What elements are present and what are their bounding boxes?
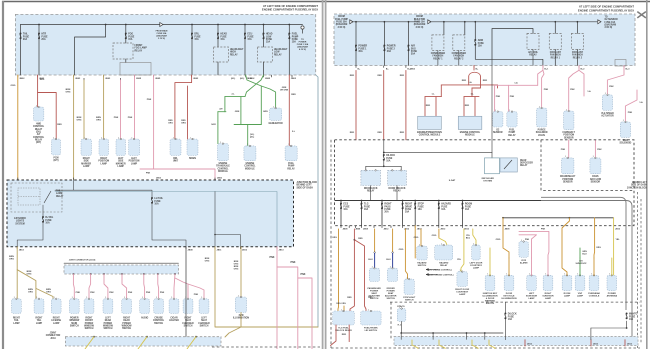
svg-text:JB13: JB13 <box>19 250 25 252</box>
connector tick right jb x=415.2 <box>414 226 416 228</box>
svg-text:JB05: JB05 <box>155 78 161 80</box>
wire fuse drop ECS <box>340 201 342 226</box>
label CRANKSHAFT POSITION SENSOR <box>560 175 576 183</box>
wire color label RED t1 <box>462 80 467 82</box>
wire notch drop yellow <box>613 218 615 275</box>
wire YEL bottom hook 3 <box>472 340 478 349</box>
wire POWER FUSE 2 drop <box>383 22 385 66</box>
wire RED tree right <box>480 76 482 85</box>
label RIGHT TAIL LAMP <box>36 318 44 325</box>
right jb connector label JB08 503 <box>505 229 511 231</box>
wire RED pair 2 <box>354 240 366 311</box>
wire PNK sunvisor h1 <box>519 231 549 258</box>
svg-text:PNK: PNK <box>609 86 614 88</box>
jc03 junction dot 4 <box>121 273 123 275</box>
wire color label RED 2 <box>57 124 62 126</box>
svg-text:(4WD CRUISE CONTROL): (4WD CRUISE CONTROL) <box>429 273 454 276</box>
label RIGHT FRONT POWER WINDOW SWITCH <box>84 318 95 331</box>
wire color label BLU s1 <box>368 259 373 261</box>
svg-text:1-A: 1-A <box>468 81 472 84</box>
page divider right line <box>325 0 327 349</box>
frame left border <box>2 1 4 349</box>
bottom strip dot 2 <box>466 332 468 334</box>
wire PNK right drop 1 <box>276 247 278 349</box>
component VOR ALARM <box>519 240 529 257</box>
wire color label PNK r2 <box>290 261 295 264</box>
component LEFT DOOR COURTESY LAMP <box>472 243 481 260</box>
label CRUISE CONTROL SWITCH <box>153 318 165 325</box>
connector tick right jb x=402.6 <box>402 226 404 228</box>
svg-text:1-A: 1-A <box>514 81 518 84</box>
connector tick left box1 x=37.6 <box>37 75 39 77</box>
connector label JB03 at x=103.6 <box>105 78 111 80</box>
joint connector strip bottom right <box>394 337 638 346</box>
wire color label RED <box>40 79 45 81</box>
wire RED pair 1 <box>350 229 354 311</box>
svg-text:JB12: JB12 <box>384 229 390 231</box>
wire PNK jc03 cigar <box>174 274 175 299</box>
wire color label BRN ORG jb11 <box>205 258 210 262</box>
label RIGHT SIDE MARKER LAMP <box>81 158 91 168</box>
wire ORG ecs drop <box>337 229 340 311</box>
connector label JB02 at x=191.6 <box>193 78 199 80</box>
wire YEL hazard relay hook <box>439 238 447 245</box>
label ENGINE CONTROL MODULE left pg <box>244 163 256 170</box>
wire color label PNK jc03 6 <box>160 292 165 294</box>
svg-text:VLE SPEEDACTUATOR: VLE SPEEDACTUATOR <box>601 113 614 118</box>
fuse TAIL FUSE 20A <box>20 33 30 41</box>
component VLE SPEED ACTUATOR <box>602 93 612 110</box>
wire RED below tlg2 <box>348 325 350 342</box>
wire ac coil relay bottom stub <box>532 49 534 65</box>
component HAZARD RELAY <box>435 243 453 260</box>
wire RED 4wd feed <box>37 75 39 107</box>
wire dlock bar <box>366 165 401 167</box>
wire color label BRN 4wd <box>234 266 239 270</box>
label HAZARD SWITCH <box>417 261 427 267</box>
wire color label ORG dr <box>399 249 404 251</box>
connector tick left box1 x=103.6 <box>103 75 105 77</box>
wire PNK o2 sensor drop <box>494 85 496 111</box>
svg-text:JB02: JB02 <box>250 78 256 80</box>
wire color label BRN ORG s1 <box>9 256 14 261</box>
svg-text:BRNORG: BRNORG <box>28 289 33 294</box>
svg-text:ENGINE/POWERTRAINCONTROL MODUL: ENGINE/POWERTRAINCONTROL MODULE <box>417 131 442 137</box>
jc03 junction dot 3 <box>103 273 105 275</box>
connector label JB05 pnk <box>217 178 223 180</box>
connector tick box2 top x=73.6 <box>73 178 75 180</box>
wire RED/ORG drl unit feed <box>175 75 192 139</box>
close icon X <box>637 12 646 18</box>
component DEFOGGER SYSTEM box <box>485 158 500 174</box>
wire GRN ecm feed <box>247 125 249 146</box>
wire TAIL fuse drop <box>20 25 22 76</box>
jc03 junction dot 6 <box>157 273 159 275</box>
svg-text:RED: RED <box>347 297 352 299</box>
label RIGHT SUNVISOR LAMP <box>542 293 554 300</box>
wire BRN/ORG stair 1 <box>17 270 36 300</box>
svg-text:ORG: ORG <box>11 85 16 87</box>
wire color label RED ORG a <box>168 120 173 125</box>
junction block behind dash (left page) <box>7 180 294 247</box>
wire RED mod2 stem2 <box>471 88 473 97</box>
wire RED mod1 drop a <box>424 97 426 117</box>
label FUEL PUMP RELAY left pg <box>287 163 295 170</box>
svg-text:BLU: BLU <box>368 259 373 261</box>
connector tick left box1 x=245.6 <box>245 75 247 77</box>
wire color label RED rp3 <box>368 297 373 299</box>
wire feed IGNITION KEY ILLUMINATION <box>489 258 491 275</box>
svg-text:PNK: PNK <box>570 89 575 91</box>
wire ORG seat2 upper <box>392 229 394 253</box>
relay FRONT FOG LAMP RELAY <box>113 43 147 59</box>
wire dlock bottom out <box>504 318 506 339</box>
right jb connector label JB12 462.5 <box>464 229 470 231</box>
svg-text:RED: RED <box>342 334 347 336</box>
connector label stub 2 <box>593 343 599 345</box>
component REAR DEFOGGER RELAY <box>500 158 517 172</box>
fuse RIGHT PASS FUSE 20A <box>381 203 392 214</box>
bus dot STOP <box>414 200 416 202</box>
relay COOLANT FAN HIGH RELAY 1 <box>549 33 561 49</box>
svg-text:PNK: PNK <box>544 89 549 91</box>
engine compartment fuse/relay box (right page) <box>334 14 635 66</box>
wire dlock feed from right <box>384 151 492 153</box>
svg-text:1-A: 1-A <box>639 101 643 104</box>
wire YEL bottom hook 1 <box>412 340 418 349</box>
splice 1-A cam <box>587 90 591 93</box>
wire ORG stoplight drop <box>405 229 407 279</box>
fuse HAZARD FUSE 10A <box>438 203 451 211</box>
svg-text:PNK: PNK <box>128 117 133 119</box>
wire color label PNK h <box>146 173 151 175</box>
svg-text:OVERHEADCONSOLE: OVERHEADCONSOLE <box>588 292 601 298</box>
svg-text:PCM(D/T): PCM(D/T) <box>53 158 58 163</box>
wire YEL jc19 drop 3 <box>187 337 196 349</box>
svg-text:JB02: JB02 <box>193 78 199 80</box>
label CAMSHAFT POSITION SENSOR <box>562 131 575 139</box>
label SIREN <box>189 158 196 160</box>
label DEFOGGER SYSTEM <box>482 178 495 183</box>
left bus wire <box>21 24 303 26</box>
wire fuse drop RIGHT <box>381 201 383 226</box>
right connector label B+2 <box>581 68 586 70</box>
wire color label BRN ORG s4 <box>46 289 51 294</box>
component HAZARD SWITCH <box>417 244 428 260</box>
label ENGINE TRANSAXLE CONTROL MODULE <box>216 163 230 173</box>
wire GRN splice bar 2 <box>218 111 226 113</box>
connector tick box2 x=186 <box>185 247 187 249</box>
connector tick left box1 x=263.5 <box>263 75 265 77</box>
component FUEL/TRUNK LID SWITCH <box>361 309 381 325</box>
wire color label GRN BLU <box>582 251 587 255</box>
label BEHIND LEFT SIDE OF DASH JUNCTION BLOCK <box>627 182 648 189</box>
relay CONDENSER FAN HIGH RELAY 1 <box>432 35 444 51</box>
wire feed RIGHT SUNVISOR <box>547 258 549 275</box>
connector label JB02 at x=17.8 <box>19 78 25 80</box>
svg-text:JB02: JB02 <box>265 78 271 80</box>
connector tick right jb x=462.5 <box>462 226 464 228</box>
fuse LH TAIL FUSE 10A <box>151 197 164 205</box>
wire YEL jc19 drop 1 <box>85 337 94 349</box>
label LEFT SUNVISOR LAMP <box>526 293 538 300</box>
label 4WD CONTROL RELAY <box>33 123 45 145</box>
connector tick left box1 x=134.5 <box>134 75 136 77</box>
jc19 junction dot 3 <box>195 336 197 338</box>
connector tick right jb x=341 <box>340 226 342 228</box>
connector label JB13 under junction block <box>19 250 25 252</box>
svg-text:PNK: PNK <box>146 173 151 175</box>
component CAMSHAFT POSITION SENSOR <box>564 109 574 129</box>
component FUEL PUMP RELAY left pg <box>285 144 297 161</box>
connector label JB02 at x=245 <box>247 78 253 80</box>
wire BLU seat2 <box>392 253 394 268</box>
connector label JB03 at x=73.6 <box>75 78 81 80</box>
wire color label PNK vle <box>609 86 614 88</box>
joint connector JC03 strip <box>64 265 179 274</box>
connector tick box2 x=240.4 <box>239 247 241 249</box>
junction block behind dash (right page) <box>335 140 635 226</box>
label PASSENGER POWER SEAT <box>367 287 381 300</box>
notch dot 2 <box>502 217 504 219</box>
wire BRN/ORG junction block feed <box>73 75 75 180</box>
wire fuse drop TLG <box>361 201 363 226</box>
right connector label B+2 <box>407 68 412 70</box>
label S-DAT <box>449 179 456 182</box>
splice label 1-A right <box>468 81 472 84</box>
component IGNITION KEY ILLUMINATION & DOOR WARNING SWITCH <box>485 274 495 291</box>
wire FUEL PUMP fuse drop <box>288 25 290 76</box>
wire RED mod2 stem <box>497 85 499 88</box>
arrow UV cruise control <box>426 269 438 271</box>
svg-text:JB08: JB08 <box>363 229 369 231</box>
wire PNK horizontal left stub <box>140 168 154 170</box>
right bus junction at x=555.3 <box>554 21 556 23</box>
wire RED below tlg <box>331 325 337 346</box>
connector box outline at box1 bottom <box>120 63 151 76</box>
label UV CRUISE CONTROL <box>429 269 453 271</box>
wire ORG room drop <box>562 218 569 275</box>
fuse HEAD LOW FUSE 15A <box>263 33 273 44</box>
svg-text:HAZARDRELAY: HAZARDRELAY <box>439 261 449 267</box>
label S/O SUN ROOF <box>576 261 588 266</box>
connector tick box2 top x=17.8 <box>17 178 19 180</box>
component EGR SOLENOID <box>620 120 630 137</box>
wire color label BLU s2 <box>386 259 391 261</box>
bus dot TLG <box>361 200 363 202</box>
component LEFT REAR POWER WINDOW SWITCH <box>103 297 113 313</box>
connector label JB02 at x=37.6 <box>39 78 45 80</box>
svg-text:JB03: JB03 <box>156 178 162 180</box>
label AUDIO <box>141 317 148 320</box>
svg-text:JB05: JB05 <box>136 78 142 80</box>
wire color label PNK egr <box>628 112 633 114</box>
connector tick right box1 x=624 <box>623 66 625 68</box>
component ENGINE/POWERTRAIN CONTROL MODULE <box>418 116 442 129</box>
svg-text:JB08: JB08 <box>343 229 349 231</box>
connector label stub 3 <box>627 343 633 345</box>
svg-text:GRNBLU: GRNBLU <box>582 251 587 255</box>
label JUNCTION BLOCK BEHIND LEFT SIDE OF DASH <box>297 182 318 189</box>
wire ADM fuse drop <box>474 22 476 40</box>
wire ORG seat1 upper <box>374 229 376 253</box>
pin circle seat1 <box>374 252 376 254</box>
right bus junction at x=356 <box>355 21 357 23</box>
connector label JB11 under junction block <box>217 250 223 252</box>
connector label JB05 at x=153.6 <box>155 78 161 80</box>
wire PNK right branch 2 <box>298 278 312 349</box>
component RIGHT LICENSE LAMP <box>51 297 61 313</box>
svg-text:PNK: PNK <box>525 239 530 241</box>
wire HEAD fuse drop <box>217 25 219 48</box>
svg-text:JB12: JB12 <box>527 343 533 345</box>
wire RED mod1 stem <box>440 85 442 97</box>
dashed boundary bottom left page <box>212 346 320 348</box>
component 4WD ILLUMINATION <box>235 295 246 312</box>
wire color label RED p1 <box>350 75 355 77</box>
wire PNK purge drop <box>542 70 544 108</box>
svg-text:ORG ORG: ORG ORG <box>336 303 346 305</box>
wire color label BRN ORG jb13 <box>234 261 239 265</box>
component STOPLIGHT SWITCH <box>404 277 414 294</box>
wire PNK jc03 drop 2 <box>89 274 91 299</box>
label LEFT SEAT CHARGER SWITCH <box>198 318 210 328</box>
component ROOM LAMP <box>562 274 572 291</box>
wire PNK jc03 seat chargers <box>175 278 188 299</box>
svg-text:JB12: JB12 <box>464 229 470 231</box>
wire fog relay drop <box>125 59 127 63</box>
bus junction at x=245 <box>244 24 246 26</box>
wire PNK vle branch <box>607 66 624 95</box>
wire PNK jc03 drop 4 <box>122 274 127 299</box>
wire color label RED m1 <box>426 105 431 107</box>
wire feed LEFT SUNVISOR <box>531 258 533 275</box>
dashed boundary bottom right page <box>331 347 640 349</box>
wire RED power feed 2 <box>383 71 385 140</box>
wire PNK maf feed <box>594 140 596 158</box>
svg-text:PNK: PNK <box>147 99 152 101</box>
connector label JB08 under junction block <box>188 250 194 252</box>
wire HTR fuse drop <box>38 25 40 76</box>
fuse FUEL PUMP FUSE 15A <box>288 33 299 44</box>
svg-text:S-DAT: S-DAT <box>449 179 456 182</box>
wire color label BRN ORG b <box>77 117 82 122</box>
wire RED bottom stub 1 <box>524 340 526 346</box>
component RIGHT REAR POWER WINDOW SWITCH <box>122 297 132 313</box>
right page junction bus <box>335 200 541 202</box>
junction dot jb <box>214 234 216 236</box>
right jb connector label JB12 382 <box>384 229 390 231</box>
wire GRN splice branch <box>245 75 264 97</box>
connector box outline at right box1 bottom <box>615 60 626 67</box>
wire teal right margin <box>316 75 318 327</box>
component RIGHT TAIL LAMP <box>34 297 44 313</box>
fuse B+TAIL FUSE 10A <box>42 216 54 224</box>
wire color label GRN OR GRN <box>280 87 289 91</box>
svg-text:PNK: PNK <box>109 292 114 294</box>
wire dlock drop2 <box>400 166 402 170</box>
svg-text:PNK: PNK <box>76 292 81 294</box>
svg-text:JB12: JB12 <box>593 343 599 345</box>
wire color label RED bt <box>342 334 347 336</box>
svg-text:BRNORG: BRNORG <box>234 266 239 270</box>
splice label 2-L <box>231 94 235 96</box>
label LEFT DOOR COURTESY LAMP <box>470 262 483 269</box>
component TLG FUEL UNLOCK RELAY <box>333 309 355 325</box>
jc03 junction dot 2 <box>90 273 92 275</box>
svg-text:ROOMLAMP: ROOMLAMP <box>564 293 571 298</box>
wire coolant relay2 drop <box>576 22 578 34</box>
wire color label RED p2 <box>378 75 383 77</box>
connector tick right box1 x=383.7 <box>383 66 385 68</box>
notch dot 1 <box>569 217 571 219</box>
wire condenser relay2 drop <box>464 22 466 35</box>
svg-text:RED: RED <box>378 75 383 77</box>
label COOLANT FAN HIGH RELAY 2 <box>572 51 584 59</box>
right jb connector label JB12 438.8 <box>440 229 446 231</box>
label RIGHT SEAT CHARGER SWITCH <box>182 318 194 328</box>
right page header text <box>579 5 634 9</box>
svg-text:ORG: ORG <box>414 237 419 239</box>
wire ORG jb08 drop right <box>503 218 509 258</box>
component GENERATOR <box>270 106 282 120</box>
wire PNK left position feed <box>134 75 136 139</box>
wire color label ORG ecs <box>332 237 337 239</box>
wire strip drop 0 <box>400 333 402 339</box>
svg-text:JB13: JB13 <box>615 229 621 231</box>
wire strip drop 2 <box>466 333 468 339</box>
fuse MAHTG FUSE 10A <box>626 313 638 321</box>
wire RED mod1 drop b <box>435 97 437 117</box>
wire fuse drop HAZARD <box>438 201 440 226</box>
right page header text line2 <box>578 8 634 12</box>
connector tick left box1 x=73.6 <box>73 75 75 77</box>
label CONDENSER FAN HIGH RELAY 1 <box>431 53 446 60</box>
label O2 SENSOR <box>493 130 503 135</box>
bus dot ROOM <box>462 200 464 202</box>
svg-text:PNK: PNK <box>541 229 546 231</box>
connector tick left box1 x=271.4 <box>270 75 272 77</box>
wire color label PNK jc03 4 <box>128 292 133 294</box>
component DRL UNIT <box>170 137 181 155</box>
left page header text line2 <box>262 8 318 12</box>
svg-text:JB12: JB12 <box>417 229 423 231</box>
label COOLANT FAN HIGH RELAY 1 <box>550 51 562 59</box>
wire RED mod1 bar <box>425 96 441 98</box>
wire color label RED fp <box>291 94 296 96</box>
component RIGHT SEAT CHARGER SWITCH <box>183 297 193 313</box>
label EGR SOLENOID <box>620 140 632 145</box>
bus dot RIGHT <box>381 200 383 202</box>
wire color label YEL n <box>615 239 620 241</box>
wire PNK branch left <box>538 70 543 85</box>
wire PNK jc03 left seat charger <box>188 284 204 299</box>
wire color label ORG oc <box>596 247 601 249</box>
svg-text:BRNORG: BRNORG <box>77 117 82 122</box>
connector tick right box1 x=579 <box>578 66 580 68</box>
wire BRN jb11 drop <box>215 247 318 327</box>
fuse TLG FUSE 10A <box>361 203 371 211</box>
right jb connector label JB08 341 <box>343 229 349 231</box>
wire PNK jc03 drop 1 <box>72 274 75 299</box>
svg-text:PNK: PNK <box>561 149 566 151</box>
svg-text:BRNORG: BRNORG <box>234 261 239 265</box>
jc19 junction dot 1 <box>93 336 95 338</box>
svg-text:HAZARDSWITCH: HAZARDSWITCH <box>417 261 427 267</box>
wire PNK splice bar o2 <box>495 84 538 86</box>
right bus junction at x=408.5 <box>408 21 410 23</box>
bus junction at x=263.5 <box>263 24 265 26</box>
